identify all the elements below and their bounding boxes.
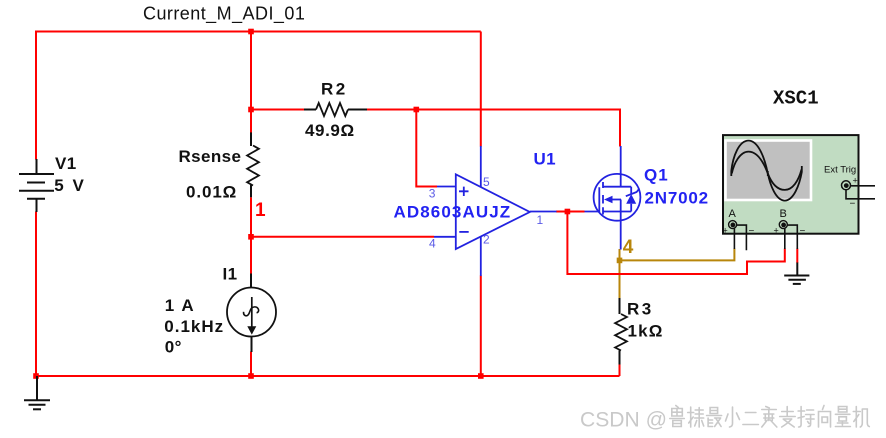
svg-text:0°: 0° — [165, 338, 182, 357]
svg-text:−: − — [749, 226, 755, 237]
svg-text:3: 3 — [429, 187, 436, 201]
wire scope B- to ground — [796, 249, 798, 264]
svg-text:1kΩ: 1kΩ — [628, 322, 664, 341]
wire Rsense branch from top rail — [250, 32, 252, 135]
junction node 1 — [248, 234, 254, 240]
wire left rail upper (V1 top) — [35, 31, 37, 160]
svg-text:B: B — [780, 208, 787, 220]
watermark CJK glyphs (drawn strokes) — [670, 406, 870, 428]
wire net4 horizontal to scope A+ — [620, 249, 735, 261]
transistor Q1 2N7002 — [585, 146, 641, 250]
wire net4 Q1 source to R3 and scope A+ — [619, 249, 621, 299]
svg-text:5 V: 5 V — [54, 176, 86, 195]
svg-text:AD8603AUJZ: AD8603AUJZ — [394, 203, 512, 222]
svg-text:CSDN @: CSDN @ — [580, 407, 667, 431]
scope terminal A — [723, 208, 755, 250]
wire node1 to opamp pin4 — [251, 236, 434, 238]
junction I1 / ground rail — [248, 373, 254, 379]
junction pin3 branch — [414, 107, 420, 113]
wire R3 bottom to ground rail — [619, 364, 621, 376]
svg-text:1 A: 1 A — [165, 296, 195, 315]
junction output feedback — [565, 209, 571, 215]
wire opamp pin2 to ground rail — [480, 276, 482, 377]
current source I1 — [227, 274, 276, 353]
svg-text:R3: R3 — [627, 300, 654, 319]
svg-text:XSC1: XSC1 — [773, 88, 819, 110]
wire top rail V1+ to opamp V+ — [36, 31, 481, 33]
junction top rail / Rsense branch — [248, 29, 254, 35]
junction pin2 / ground rail — [478, 373, 484, 379]
svg-text:+: + — [723, 226, 728, 236]
svg-text:U1: U1 — [534, 150, 556, 169]
svg-text:5: 5 — [483, 175, 490, 189]
scope terminal B — [774, 208, 806, 249]
svg-text:−: − — [800, 226, 806, 237]
ground (scope B-) — [784, 263, 809, 284]
wire feedback output to scope B+ — [567, 212, 784, 275]
ground (left, under rail) — [24, 376, 50, 409]
svg-text:4: 4 — [623, 237, 634, 258]
scope trace outer — [731, 141, 802, 201]
ext trig terminal — [842, 176, 876, 210]
battery V1 — [19, 159, 54, 212]
svg-text:−: − — [850, 199, 856, 210]
svg-text:49.9Ω: 49.9Ω — [305, 121, 355, 140]
svg-text:Rsense: Rsense — [179, 147, 242, 166]
svg-text:A: A — [729, 208, 737, 220]
svg-text:V1: V1 — [55, 154, 77, 173]
svg-text:Current_M_ADI_01: Current_M_ADI_01 — [143, 4, 305, 25]
scope trace inner — [732, 152, 802, 190]
wire R2 right segment to Q1 drain — [367, 110, 621, 147]
resistor R3 — [615, 298, 627, 365]
svg-text:0.1kHz: 0.1kHz — [164, 317, 224, 336]
wire opamp pin3 branch — [416, 110, 437, 187]
svg-text:I1: I1 — [223, 265, 238, 284]
svg-text:Q1: Q1 — [644, 166, 669, 185]
svg-text:1: 1 — [255, 200, 266, 221]
wire opamp output to Q1 gate — [556, 211, 585, 213]
wire Rsense bottom to node 1 junction — [250, 197, 252, 274]
svg-text:Ext Trig: Ext Trig — [824, 165, 856, 176]
svg-text:+: + — [774, 226, 779, 236]
svg-text:2: 2 — [483, 233, 490, 247]
junction left ground rail — [33, 373, 39, 379]
svg-text:+: + — [853, 176, 858, 186]
oscilloscope XSC1 — [723, 135, 859, 234]
wire I1 bottom to ground rail — [250, 352, 252, 377]
svg-text:2N7002: 2N7002 — [645, 189, 709, 208]
junction R2 left node — [248, 107, 254, 113]
wire R2 left segment — [251, 109, 305, 111]
wire left rail lower (V1 bottom to ground rail) — [36, 212, 620, 377]
op-amp U1 AD8603AUJZ — [434, 146, 557, 276]
junction net 4 — [617, 258, 623, 264]
svg-text:4: 4 — [429, 237, 436, 251]
resistor R2 — [304, 103, 367, 116]
svg-text:R2: R2 — [321, 80, 348, 99]
wire opamp V+ vertical from top rail — [480, 32, 482, 147]
svg-text:1: 1 — [537, 213, 544, 227]
resistor Rsense — [247, 132, 259, 197]
svg-text:0.01Ω: 0.01Ω — [186, 182, 237, 201]
